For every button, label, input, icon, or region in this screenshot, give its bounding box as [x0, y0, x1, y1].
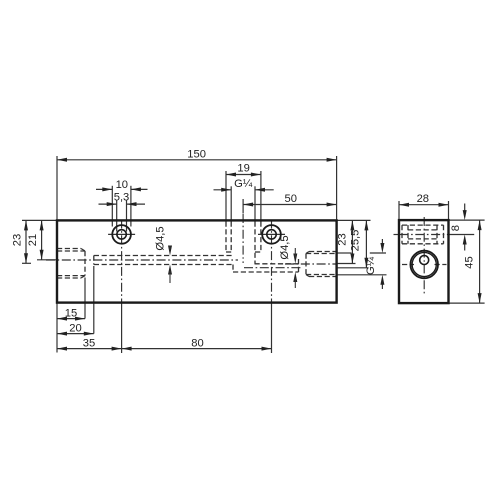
svg-text:28: 28 [417, 193, 429, 205]
svg-text:15: 15 [65, 307, 77, 319]
svg-text:19: 19 [237, 163, 249, 175]
svg-text:G¼: G¼ [365, 256, 377, 275]
svg-text:10: 10 [116, 179, 128, 191]
svg-text:35: 35 [83, 337, 95, 349]
svg-text:20: 20 [69, 322, 81, 334]
svg-text:Ø4,5: Ø4,5 [155, 226, 167, 250]
svg-text:23: 23 [12, 234, 24, 246]
svg-text:80: 80 [191, 337, 203, 349]
svg-text:Ø4,5: Ø4,5 [279, 235, 291, 259]
svg-text:G¼: G¼ [234, 178, 253, 190]
svg-text:21: 21 [27, 234, 39, 246]
svg-text:150: 150 [187, 149, 206, 161]
svg-text:25,5: 25,5 [350, 230, 362, 252]
svg-text:5,3: 5,3 [114, 191, 130, 203]
svg-text:50: 50 [284, 193, 296, 205]
svg-text:8: 8 [450, 225, 462, 231]
svg-text:45: 45 [464, 256, 476, 268]
svg-text:23: 23 [337, 233, 349, 245]
